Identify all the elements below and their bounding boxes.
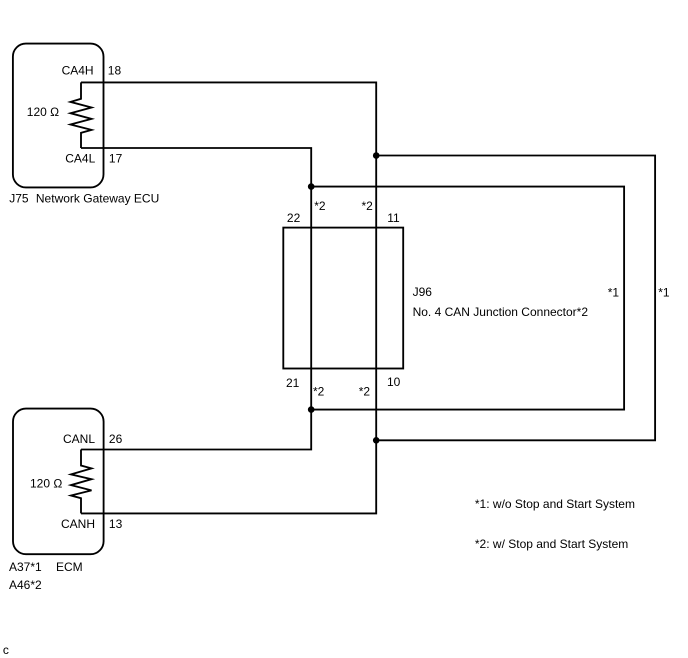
svg-text:No. 4 CAN Junction Connector*2: No. 4 CAN Junction Connector*2 <box>413 305 589 319</box>
svg-text:CA4L: CA4L <box>65 152 95 166</box>
node junction dot CANL bottom <box>308 406 315 413</box>
svg-text:21: 21 <box>286 376 300 390</box>
svg-text:ECM: ECM <box>56 560 83 574</box>
node junction dot CANL top <box>308 183 315 190</box>
svg-text:26: 26 <box>109 432 123 446</box>
wire inner bypass loop *1 (CANL side) <box>311 187 624 410</box>
wire CA4H pin18 to CANH pin13 via vertical bus <box>81 82 376 513</box>
svg-text:Network Gateway ECU: Network Gateway ECU <box>36 192 159 206</box>
node junction dot CANH bottom <box>373 437 380 444</box>
svg-text:13: 13 <box>109 517 123 531</box>
svg-text:CANL: CANL <box>63 432 95 446</box>
node junction dot CANH top <box>373 152 380 159</box>
svg-text:*1: *1 <box>658 286 670 300</box>
svg-text:*1: w/o Stop and Start System: *1: w/o Stop and Start System <box>475 497 635 511</box>
svg-text:*2: *2 <box>314 199 326 213</box>
connector box J96 No.4 CAN Junction Connector <box>283 228 403 369</box>
svg-text:*2: *2 <box>359 385 371 399</box>
svg-text:*2: *2 <box>362 199 374 213</box>
ECU block J75 Network Gateway ECU outline <box>13 44 104 188</box>
svg-text:22: 22 <box>287 211 301 225</box>
svg-text:11: 11 <box>387 211 400 225</box>
svg-text:*2: *2 <box>313 385 325 399</box>
svg-text:120 Ω: 120 Ω <box>30 477 62 491</box>
wire CA4L pin17 to CANL pin26 via vertical bus <box>81 148 311 450</box>
svg-text:A37*1: A37*1 <box>9 560 42 574</box>
svg-text:*1: *1 <box>608 286 620 300</box>
svg-text:18: 18 <box>108 63 122 77</box>
svg-text:J96: J96 <box>413 285 433 299</box>
svg-text:17: 17 <box>109 152 123 166</box>
resistor 120 ohm inside ECM <box>71 450 92 514</box>
svg-text:A46*2: A46*2 <box>9 578 42 592</box>
resistor 120 ohm inside J75 <box>71 82 92 148</box>
svg-text:*2: w/ Stop and Start System: *2: w/ Stop and Start System <box>475 537 628 551</box>
svg-text:J75: J75 <box>9 192 29 206</box>
svg-text:10: 10 <box>387 375 401 389</box>
wire outer bypass loop *1 (CANH side) <box>376 156 655 441</box>
ECU block ECM outline <box>13 409 104 555</box>
svg-text:CANH: CANH <box>61 517 95 531</box>
svg-text:120 Ω: 120 Ω <box>27 105 59 119</box>
svg-text:c: c <box>3 643 9 657</box>
svg-text:CA4H: CA4H <box>62 63 94 77</box>
